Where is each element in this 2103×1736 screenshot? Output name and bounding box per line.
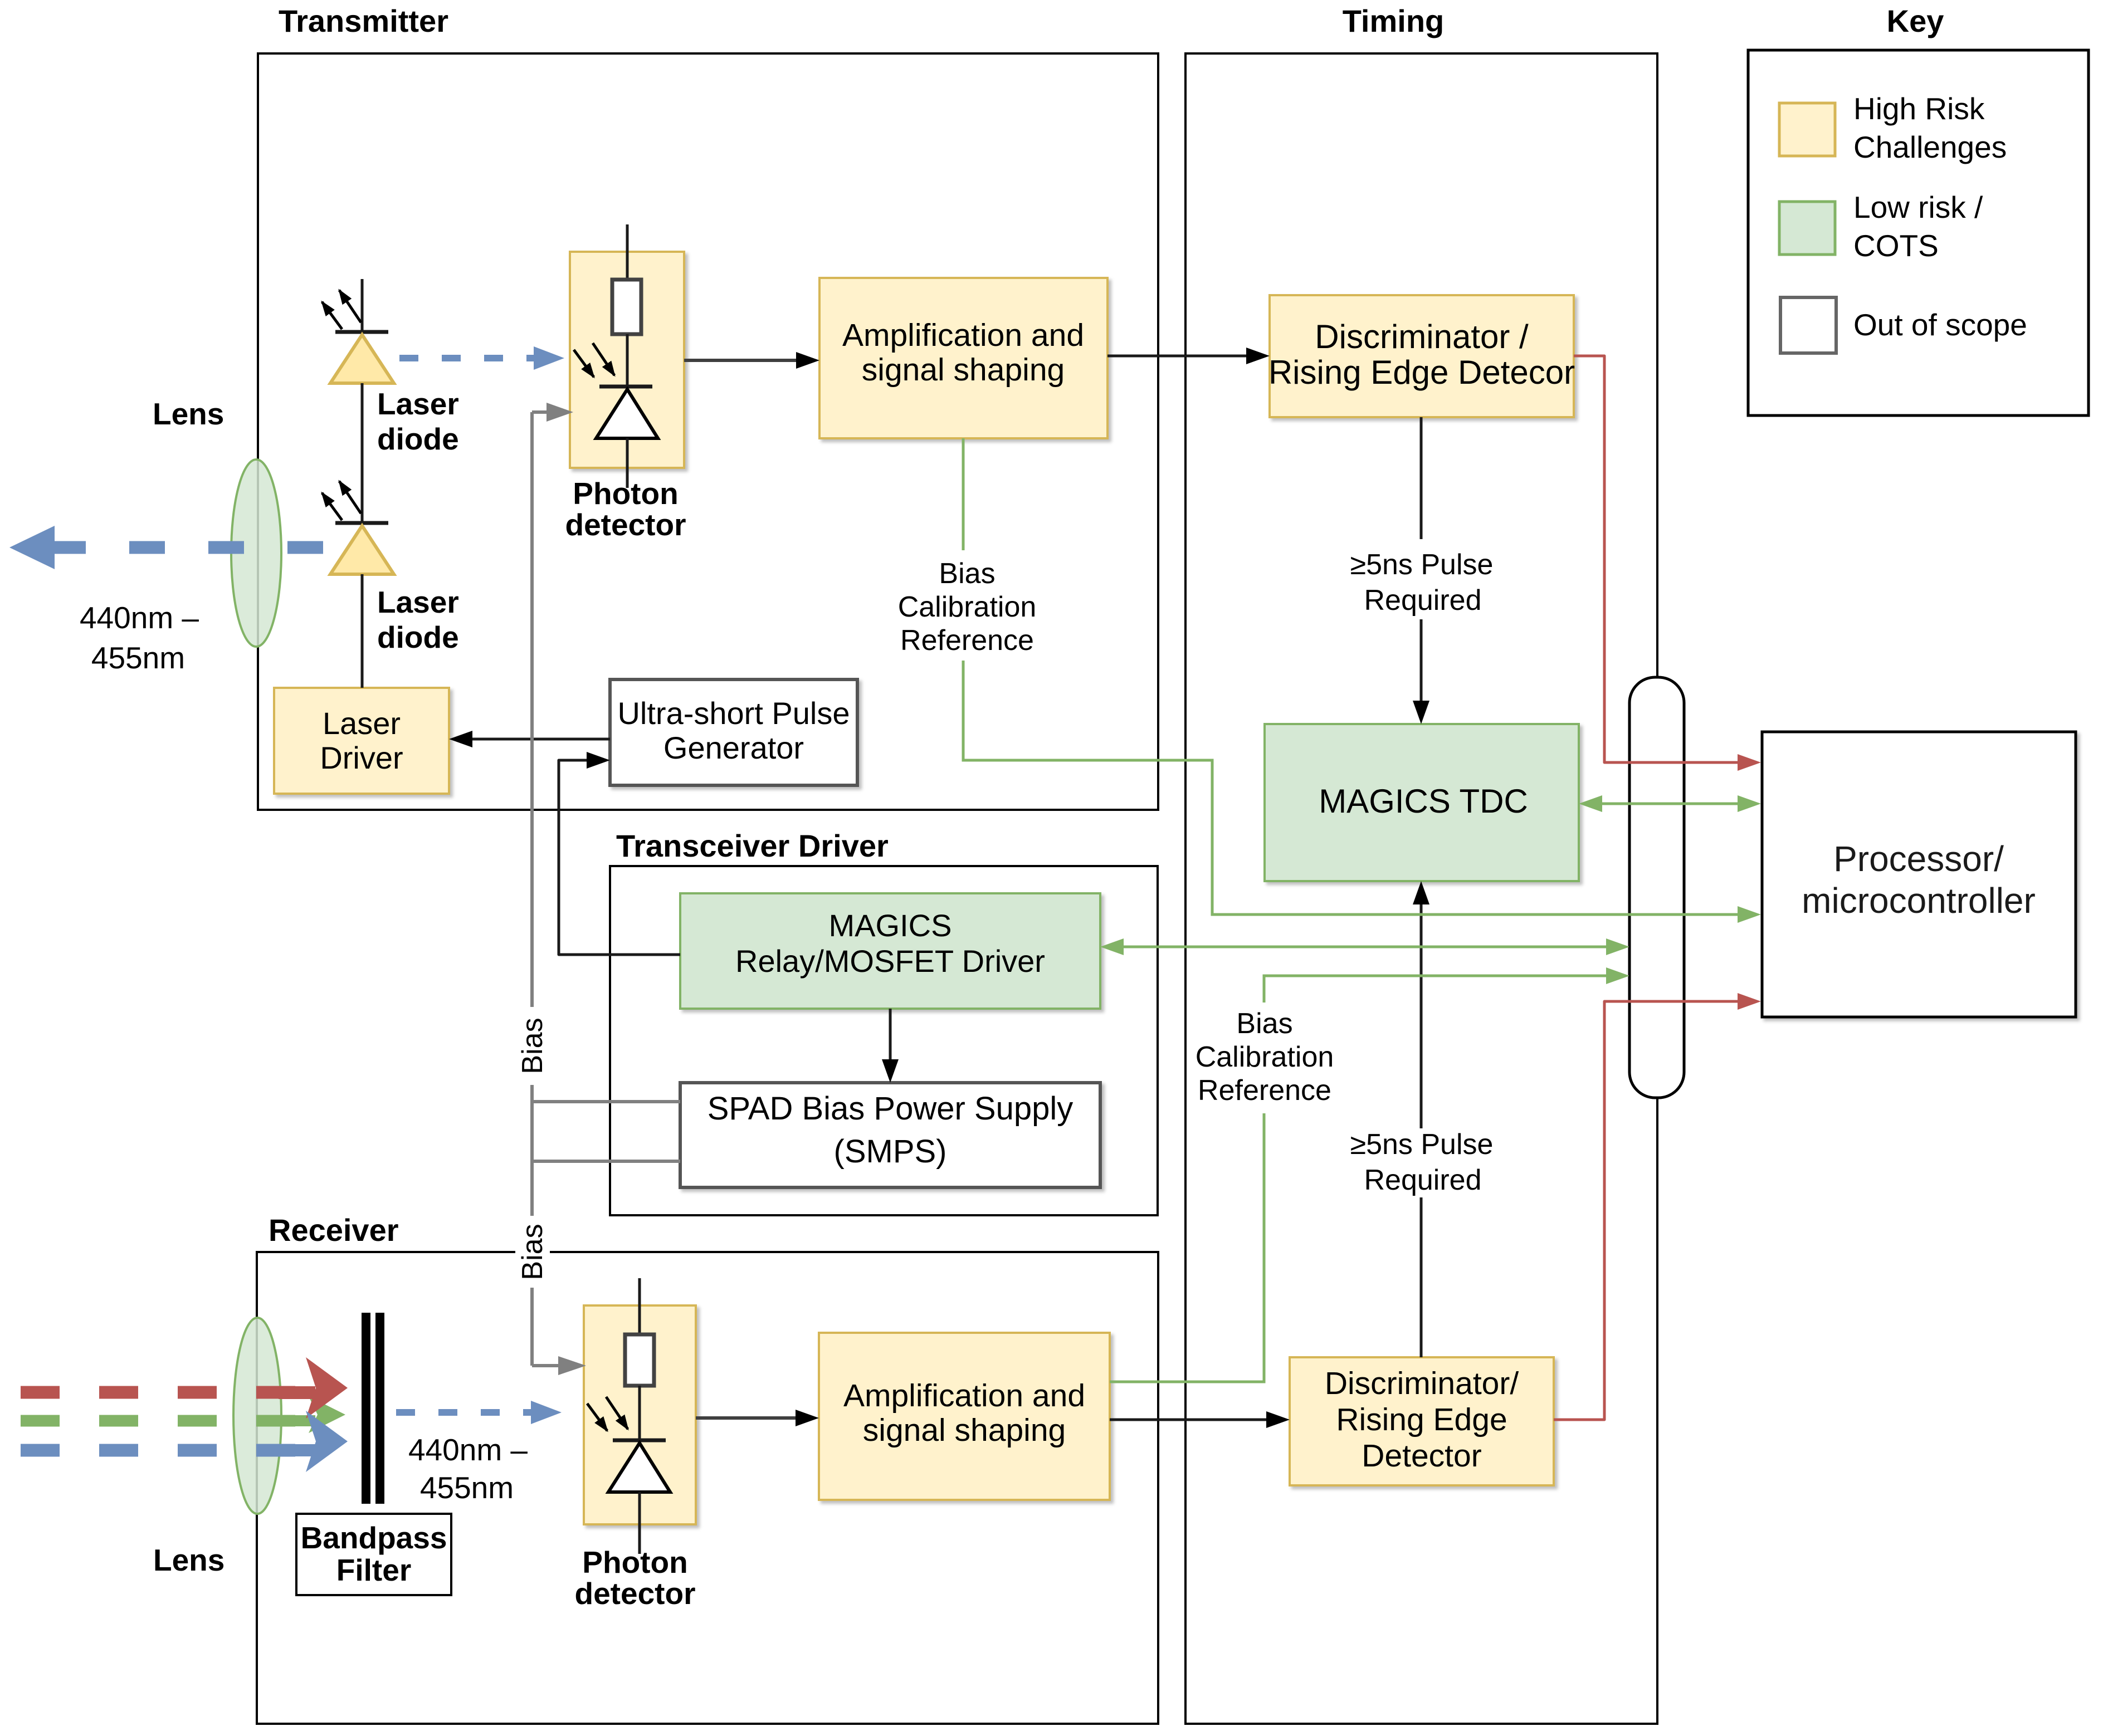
label Bias Calibration Reference (top) <box>898 558 1037 657</box>
block SPAD Bias Power Supply (SMPS) <box>680 1083 1100 1187</box>
block Amplification and signal shaping (receiver) <box>819 1333 1110 1500</box>
svg-text:Processor/: Processor/ <box>1833 839 2004 879</box>
svg-text:455nm: 455nm <box>91 640 185 675</box>
laser diode D2 emission arrows <box>322 481 361 520</box>
label Key <box>1887 3 1944 38</box>
container Transceiver Driver box <box>610 866 1158 1215</box>
svg-text:440nm –: 440nm – <box>80 600 199 635</box>
resistor inside receiver photon detector <box>625 1334 654 1386</box>
gray bias stub to SPAD supply (lower) <box>532 1160 680 1163</box>
svg-text:Photon: Photon <box>573 476 678 511</box>
svg-text:Driver: Driver <box>320 740 403 775</box>
blue dashed beam D2 to lens and out (thick) <box>9 526 324 569</box>
svg-text:Ultra-short Pulse: Ultra-short Pulse <box>617 696 850 731</box>
laser diode D1 triangle <box>330 335 394 383</box>
bandpass filter bars <box>362 1313 384 1504</box>
photodiode triangle (receiver) <box>608 1443 670 1492</box>
svg-text:Calibration: Calibration <box>1196 1041 1334 1073</box>
block Photon detector (receiver) yellow box <box>584 1305 696 1524</box>
laser diode D1 cathode bar <box>335 330 388 334</box>
laser diode D1 stub <box>361 279 364 332</box>
wire photon detector to amplification (transmitter) <box>684 352 819 369</box>
label Transceiver Driver <box>616 828 889 863</box>
gray bias rail vertical (with label gaps) <box>530 412 534 1366</box>
svg-text:Transceiver Driver: Transceiver Driver <box>616 828 889 863</box>
svg-text:Laser: Laser <box>323 706 401 741</box>
svg-text:Amplification and: Amplification and <box>843 1378 1085 1414</box>
label Bias (upper, rotated) <box>516 1018 549 1074</box>
svg-text:Challenges: Challenges <box>1853 130 2007 164</box>
blue dashed beam D1 to photon detector (thin) <box>399 346 564 370</box>
block Discriminator / Rising Edge Detecor (timing top) <box>1268 295 1575 417</box>
wire photodiode to bottom stub (receiver) <box>638 1492 641 1554</box>
resistor inside transmitter photon detector <box>612 280 641 334</box>
gray bias arrow into transmitter photon detector <box>532 403 573 422</box>
red wire discriminator(top) to processor <box>1574 356 1761 771</box>
svg-text:Bias: Bias <box>516 1224 549 1280</box>
wire amplification to discriminator (receiver) <box>1110 1411 1290 1428</box>
svg-text:Laser: Laser <box>377 585 459 619</box>
block MAGICS Relay/MOSFET Driver <box>680 893 1100 1009</box>
svg-text:Bias: Bias <box>1236 1008 1292 1040</box>
photodiode light arrows (transmitter) <box>574 343 614 377</box>
container Key box <box>1748 50 2089 415</box>
svg-text:Required: Required <box>1364 1164 1481 1196</box>
label ≥5ns Pulse Required (top) <box>1350 549 1494 617</box>
container Timing box <box>1185 53 1657 1724</box>
block Laser Driver <box>274 688 449 794</box>
gray bias stub to SPAD supply (upper) <box>532 1100 680 1103</box>
svg-text:Bias: Bias <box>516 1018 549 1074</box>
svg-text:Timing: Timing <box>1343 3 1445 38</box>
label Photon detector (transmitter) <box>565 476 686 542</box>
wire discriminator (bottom) to MAGICS TDC bottom (with label gap) <box>1413 881 1429 1357</box>
lens (receiver) <box>233 1318 281 1514</box>
svg-text:Receiver: Receiver <box>269 1212 399 1248</box>
label Lens (transmitter) <box>153 397 224 431</box>
svg-text:detector: detector <box>565 507 686 542</box>
svg-text:455nm: 455nm <box>420 1470 514 1505</box>
wire photodiode to bottom stub (transmitter) <box>626 438 629 488</box>
container Transmitter box <box>258 53 1158 810</box>
svg-text:COTS: COTS <box>1853 228 1939 263</box>
svg-text:Filter: Filter <box>336 1553 411 1587</box>
svg-text:Generator: Generator <box>663 730 804 765</box>
wire resistor to photodiode (transmitter) <box>626 334 629 385</box>
svg-text:diode: diode <box>377 620 459 654</box>
green arrowhead into bus (bias cal ref bottom) <box>1606 967 1629 984</box>
green bidirectional wire relay driver to bus <box>1100 938 1629 955</box>
wire stub above receiver photon detector <box>638 1278 641 1334</box>
key text Low risk / COTS <box>1853 190 1983 263</box>
svg-text:Rising Edge: Rising Edge <box>1336 1402 1507 1437</box>
block MAGICS TDC <box>1265 724 1579 881</box>
label Receiver <box>269 1212 399 1248</box>
wire stub above transmitter photon detector <box>626 224 629 280</box>
wire photon detector to amplification (receiver) <box>696 1410 819 1426</box>
container Receiver box <box>257 1252 1158 1724</box>
svg-text:Key: Key <box>1887 3 1944 38</box>
svg-text:Reference: Reference <box>900 624 1034 657</box>
key text Out of scope <box>1853 307 2027 342</box>
svg-text:High Risk: High Risk <box>1853 91 1985 126</box>
svg-text:microcontroller: microcontroller <box>1802 881 2036 921</box>
svg-text:Low risk /: Low risk / <box>1853 190 1983 224</box>
svg-text:Reference: Reference <box>1198 1074 1331 1107</box>
photodiode triangle (transmitter) <box>596 389 658 438</box>
svg-text:Amplification and: Amplification and <box>842 317 1084 353</box>
wire D1 to D2 <box>361 383 364 523</box>
svg-text:≥5ns Pulse: ≥5ns Pulse <box>1350 1128 1494 1161</box>
green wire amplification(bottom) bias calibration reference to bus <box>1110 976 1609 1382</box>
label Timing <box>1343 3 1445 38</box>
key swatch Out of scope (white) <box>1780 297 1836 353</box>
block Photon detector (transmitter) yellow box <box>570 252 684 468</box>
svg-text:Rising Edge Detecor: Rising Edge Detecor <box>1268 354 1575 391</box>
label Laser diode (D2) <box>377 585 459 654</box>
wire amplification to discriminator (transmitter) <box>1107 348 1270 364</box>
wire ultra-short pulse generator to laser driver <box>449 731 610 747</box>
key swatch Low risk / COTS (green) <box>1779 202 1835 255</box>
wire D2 to Laser Driver <box>361 574 364 688</box>
laser diode D1 emission arrows <box>322 290 361 329</box>
label Photon detector (receiver) <box>575 1545 696 1611</box>
wire MAGICS relay driver to SPAD bias supply <box>882 1009 899 1083</box>
wire discriminator to MAGICS TDC (top, with label gap) <box>1413 417 1429 724</box>
photodiode light arrows (receiver) <box>587 1397 628 1431</box>
wire relay driver hook to ultra-short pulse generator <box>559 752 680 955</box>
key swatch High Risk (yellow) <box>1779 103 1835 156</box>
svg-text:Lens: Lens <box>153 397 224 431</box>
svg-text:Bandpass: Bandpass <box>301 1520 447 1555</box>
label Lens (receiver) <box>153 1543 225 1577</box>
lens (transmitter) <box>231 459 281 647</box>
wire resistor to photodiode (receiver) <box>638 1386 641 1440</box>
svg-text:SPAD Bias Power Supply: SPAD Bias Power Supply <box>707 1090 1074 1127</box>
svg-text:detector: detector <box>575 1576 696 1611</box>
green arrowhead into processor (bias cal ref top) <box>1738 906 1761 923</box>
block Amplification and signal shaping (transmitter) <box>819 278 1107 438</box>
label Bias Calibration Reference (bottom) <box>1196 1008 1334 1107</box>
key text High Risk Challenges <box>1853 91 2007 164</box>
label 440nm – 455nm (transmitter) <box>80 600 199 675</box>
svg-text:Laser: Laser <box>377 387 459 421</box>
svg-text:MAGICS TDC: MAGICS TDC <box>1319 783 1528 820</box>
bus bar (rounded) <box>1629 677 1684 1098</box>
laser diode D2 triangle <box>330 526 394 574</box>
svg-text:Transmitter: Transmitter <box>279 3 448 38</box>
label Bias (lower, rotated) <box>516 1224 549 1280</box>
svg-text:Detector: Detector <box>1362 1438 1481 1474</box>
green wire amplification(top) bias calibration reference to processor <box>963 438 1741 915</box>
svg-text:≥5ns Pulse: ≥5ns Pulse <box>1350 549 1494 581</box>
label Laser diode (D1) <box>377 387 459 456</box>
svg-text:Out of scope: Out of scope <box>1853 307 2027 342</box>
svg-text:signal shaping: signal shaping <box>863 1412 1066 1448</box>
laser diode D2 cathode bar <box>335 521 388 525</box>
block Discriminator/Rising Edge Detector (timing bottom) <box>1290 1357 1554 1485</box>
svg-text:Discriminator/: Discriminator/ <box>1325 1366 1519 1401</box>
label ≥5ns Pulse Required (bottom) <box>1350 1128 1494 1196</box>
white mask behind Bias label (upper) <box>515 1009 550 1083</box>
svg-text:440nm –: 440nm – <box>408 1432 528 1467</box>
svg-text:Required: Required <box>1364 584 1481 617</box>
svg-text:MAGICS: MAGICS <box>829 908 952 943</box>
green bidirectional wire MAGICS TDC to processor <box>1579 795 1761 812</box>
svg-text:Relay/MOSFET Driver: Relay/MOSFET Driver <box>735 943 1045 979</box>
green incoming beam (receiver) <box>21 1396 345 1433</box>
red wire discriminator(bottom) to processor <box>1554 993 1761 1420</box>
svg-text:Discriminator /: Discriminator / <box>1315 318 1529 355</box>
block Ultra-short Pulse Generator <box>610 679 857 785</box>
red incoming beam (receiver) <box>21 1357 348 1419</box>
blue dashed beam filter to photon detector (receiver) <box>396 1401 562 1424</box>
svg-text:Photon: Photon <box>582 1545 687 1579</box>
label box Bandpass Filter <box>296 1514 451 1595</box>
block Processor/microcontroller <box>1762 732 2076 1017</box>
svg-text:Calibration: Calibration <box>898 591 1037 623</box>
svg-text:Lens: Lens <box>153 1543 225 1577</box>
svg-text:Bias: Bias <box>939 558 995 590</box>
svg-text:(SMPS): (SMPS) <box>834 1133 947 1170</box>
blue incoming beam (receiver) <box>21 1411 348 1472</box>
gray bias arrow into receiver photon detector <box>532 1356 586 1375</box>
photodiode cathode bar (transmitter) <box>599 385 652 389</box>
svg-text:diode: diode <box>377 422 459 456</box>
label Transmitter <box>279 3 448 38</box>
label 440nm – 455nm (receiver) <box>408 1432 528 1505</box>
photodiode cathode bar (receiver) <box>613 1439 666 1442</box>
white mask behind Bias label (lower) <box>515 1217 550 1287</box>
svg-text:signal shaping: signal shaping <box>862 352 1065 388</box>
